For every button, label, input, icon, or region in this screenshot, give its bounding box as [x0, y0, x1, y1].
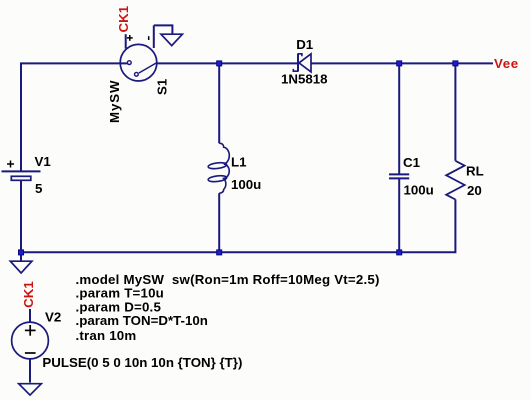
svg-text:V2: V2: [45, 309, 61, 324]
svg-text:V1: V1: [35, 154, 52, 169]
svg-text:RL: RL: [466, 164, 484, 179]
svg-text:C1: C1: [403, 155, 421, 170]
svg-text:MySW: MySW: [107, 80, 122, 124]
svg-text:.param D=0.5: .param D=0.5: [76, 299, 162, 314]
svg-text:L1: L1: [231, 154, 247, 169]
svg-text:5: 5: [35, 181, 43, 196]
svg-text:Vee: Vee: [494, 56, 519, 71]
svg-text:100u: 100u: [404, 182, 434, 197]
svg-text:D1: D1: [296, 37, 314, 52]
svg-text:S1: S1: [154, 78, 169, 95]
svg-text:.param T=10u: .param T=10u: [76, 285, 165, 300]
svg-text:CK1: CK1: [116, 5, 131, 32]
svg-text:1N5818: 1N5818: [281, 72, 328, 87]
svg-text:.param TON=D*T-10n: .param TON=D*T-10n: [76, 313, 208, 328]
svg-text:CK1: CK1: [21, 281, 36, 308]
svg-text:20: 20: [467, 183, 482, 198]
svg-text:100u: 100u: [231, 177, 261, 192]
svg-text:.tran 10m: .tran 10m: [76, 328, 137, 343]
svg-text:PULSE(0 5 0 10n 10n {TON} {T}): PULSE(0 5 0 10n 10n {TON} {T}): [42, 355, 242, 370]
